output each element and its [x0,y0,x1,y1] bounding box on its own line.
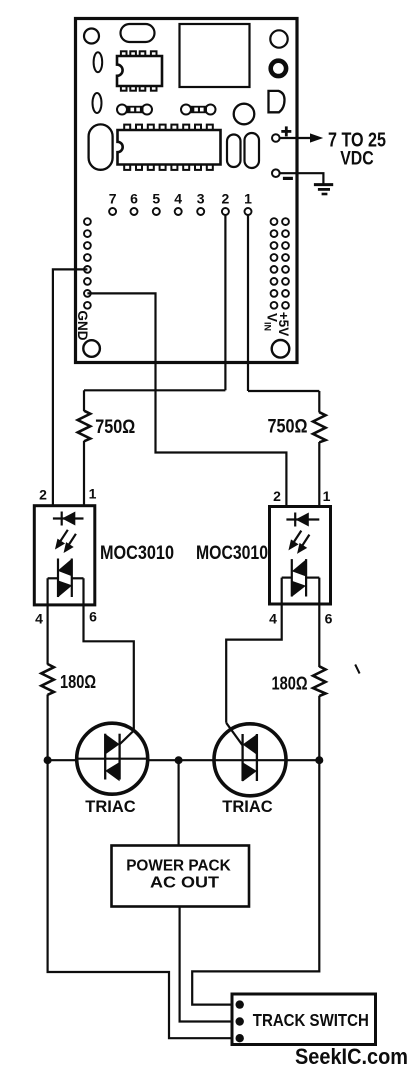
U3 LED line [53,517,84,519]
Q1 upper triangle [105,734,119,755]
IC U2 top pins [124,125,213,130]
wire R4 to node [318,696,320,761]
Q2 upper triangle [243,734,257,755]
GND pad circle [83,340,100,357]
triac Q1 circle [77,723,148,794]
svg-text:750Ω: 750Ω [268,417,308,438]
pin holes 7..1 [109,208,251,215]
IC U1 bottom pins [121,86,157,91]
junction node right [315,756,323,764]
terminal - pad [272,169,280,177]
IC U1 8-pin DIP body [117,56,162,86]
+5V pad circle [272,340,290,358]
svg-text:4: 4 [35,611,43,627]
relay square [180,24,250,87]
minus sign [283,177,293,180]
svg-text:5: 5 [152,191,160,207]
IC U1 top pins [121,51,157,56]
Q2 right bar [256,734,258,781]
svg-text:4: 4 [174,191,182,207]
track switch box [232,994,376,1045]
resistor R2 750 ohm zigzag [313,412,326,442]
pad circle mid [234,104,255,125]
svg-text:180Ω: 180Ω [272,673,308,694]
U3 MT terminal lines [48,577,84,579]
triac Q2 circle [214,724,286,796]
svg-text:2: 2 [39,487,47,503]
wire - terminal to ground [280,173,324,184]
wire power pack to track switch [180,907,237,1022]
junction node center [175,756,183,764]
svg-text:750Ω: 750Ω [95,417,135,438]
svg-text:1: 1 [244,191,252,207]
vertical pill pad 1 [227,135,241,168]
wire board pin 1 down [247,215,249,391]
svg-text:6: 6 [130,191,138,207]
wire center node to power pack [178,760,180,845]
resistor R3 180 ohm zigzag [41,664,54,695]
svg-text:TRIAC: TRIAC [222,798,272,816]
wire pin2 to left 750 [84,389,225,391]
U4 phototriac upper triangle [292,559,306,576]
stray mark [355,665,359,674]
pad circle top-right [270,30,287,47]
track switch terminal dot 1 [236,1000,244,1008]
resistor R4 180 ohm zigzag [313,666,326,696]
wire right rail to track switch [192,760,319,1004]
wire R3 to node [46,695,48,761]
wire left rail to track switch [48,760,237,1038]
U3 light arrow 2 [65,534,76,551]
Q2 left bar [241,734,243,781]
U4 light arrow 1 [290,531,301,549]
resistor footprint 1 [117,105,152,115]
U4 phototriac left bar [291,559,293,596]
wire U4 pin6 down [318,578,320,667]
svg-text:3: 3 [197,191,205,207]
IC U2 bottom pins [124,165,213,170]
Q1 main wire through [76,758,148,760]
U4 light arrow 2 [299,535,310,552]
plus sign [281,126,291,136]
wire right 750 to opto pin1 [318,442,320,506]
Q1 gate diagonal [120,731,134,744]
svg-text:SeekIC.com: SeekIC.com [295,1044,408,1069]
U4 MT terminal lines [282,576,320,578]
wire GND hole to right opto pin2 [87,293,286,506]
Q1 right bar [118,734,120,780]
vertical pill pad 2 [245,133,260,168]
ground symbol [314,185,333,194]
pad circle top-left [84,29,99,44]
capacitor pill top [121,24,155,42]
wire U3 pin4 down [46,578,48,664]
svg-text:2: 2 [222,191,230,207]
IC U2 16-pin DIP body [118,130,221,165]
wire into left 750 top [83,390,85,411]
U4 LED cathode bar [294,513,296,527]
wire pin1 to right 750 [248,390,319,392]
wire left 750 to opto pin1 [83,441,85,505]
U3 LED cathode bar [61,512,63,526]
U3 light arrow 1 [57,530,68,548]
optocoupler U3 box [34,506,95,605]
wire U3 pin6 to TRIAC gate [84,578,134,731]
U4 LED triangle [296,513,309,527]
terminal + pad [272,134,280,142]
optocoupler U4 box [270,507,331,605]
svg-text:AC OUT: AC OUT [150,875,219,892]
svg-text:1: 1 [89,486,97,502]
Q2 gate diagonal [226,723,242,745]
U4 phototriac right bar [305,559,307,596]
PCB board outline [76,19,298,363]
pin labels 7..1 [109,191,252,207]
U4 LED line [286,518,319,520]
resistor footprint 2 [181,105,216,115]
svg-text:6: 6 [89,609,97,625]
ellipse pad left 1 [94,52,103,72]
U3 phototriac right bar [71,559,73,598]
wire board pin 2 down [224,215,226,390]
svg-text:6: 6 [325,611,333,627]
resistor R1 750 ohm zigzag [78,411,91,442]
svg-text:2: 2 [273,488,281,504]
Q2 lower triangle [243,762,257,781]
svg-text:GND: GND [75,311,90,341]
big pill pad left [89,124,113,169]
Q2 main wire through [213,759,287,761]
left hole column [84,218,91,308]
svg-text:POWER PACK: POWER PACK [126,857,231,874]
wire U4 pin4 to TRIAC gate [226,578,282,723]
svg-text:VDC: VDC [340,148,374,170]
main horizontal wire [48,759,320,761]
right hole columns [271,218,289,308]
D-shaped pad [269,91,285,112]
wire + terminal to arrow [280,137,312,139]
arrowhead [310,133,323,142]
wire into right 750 top [318,391,320,413]
U3 phototriac left bar [57,559,59,598]
U3 LED triangle [62,512,75,526]
power pack box [112,846,250,907]
track switch terminal dot 2 [236,1017,244,1025]
junction node left [44,756,52,764]
Q1 left bar [104,734,106,780]
svg-text:TRIAC: TRIAC [85,798,135,816]
U3 phototriac upper triangle [58,559,72,577]
track switch terminal dot 3 [236,1034,244,1042]
svg-text:4: 4 [269,611,277,627]
U4 phototriac lower triangle [292,581,306,597]
U3 phototriac lower triangle [58,580,72,597]
svg-text:MOC3010: MOC3010 [100,543,174,564]
svg-text:TRACK SWITCH: TRACK SWITCH [253,1010,369,1030]
ring pad [271,61,286,76]
Q1 lower triangle [105,762,119,781]
svg-text:1: 1 [323,488,331,504]
svg-text:180Ω: 180Ω [60,671,96,692]
svg-text:MOC3010: MOC3010 [196,543,268,564]
ellipse pad left 2 [93,93,102,113]
wire GND hole to left opto pin2 [53,269,88,505]
svg-text:7: 7 [109,191,117,207]
